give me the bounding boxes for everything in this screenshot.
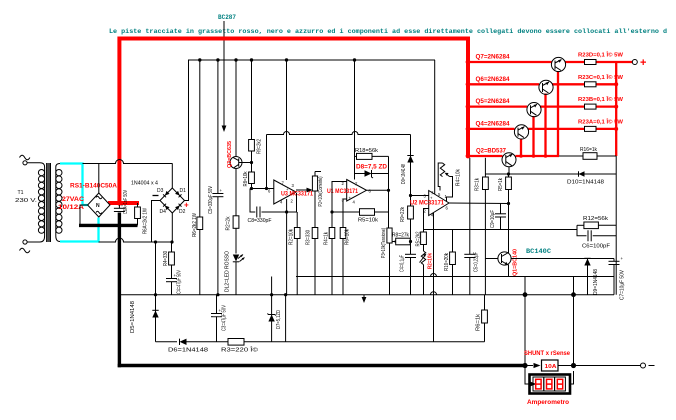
wire: Q3 emitter down / R2 / DL2 string	[235, 169, 237, 216]
resistor R6 1k	[482, 310, 488, 342]
wire: red emitter drop Q7	[557, 71, 559, 156]
wire: mid rail down to U3 input	[266, 135, 268, 189]
wire: red output bus right	[615, 62, 617, 156]
node: junction Q3 base	[250, 161, 253, 164]
wire: mid reference rail	[267, 132, 411, 135]
wire: red row Q2 emitters join	[516, 155, 560, 157]
svg-text:R2=10k: R2=10k	[289, 229, 295, 245]
node: junction R8 27k	[409, 240, 412, 243]
wire: red row Q6 to R23C	[552, 83, 585, 85]
node: junction D5 ground rail	[154, 293, 157, 296]
svg-text:R8=10k: R8=10k	[243, 171, 249, 186]
resistor R5 10k feedback	[360, 209, 389, 216]
svg-text:D3: D3	[157, 188, 164, 194]
diode D9 zener 1N4148	[407, 156, 413, 163]
node: junction link ground	[284, 293, 287, 296]
svg-text:Q6=2N6284: Q6=2N6284	[476, 76, 511, 83]
wire: R9 R8 drop	[251, 60, 253, 140]
node: junction Q2 emitter D10	[507, 172, 510, 175]
wire: bridge plus up to top rail	[185, 60, 189, 201]
wire: red row Q7 to R23D	[565, 61, 585, 63]
bridge rectifier D1-D4	[160, 188, 185, 213]
wire: R6 1k string	[484, 295, 486, 310]
resistor R9 22k	[408, 206, 414, 219]
svg-text:R2=10k: R2=10k	[428, 252, 434, 269]
svg-text:P2=10k(Corrente): P2=10k(Corrente)	[318, 176, 324, 206]
wire: red row R23C to bus	[596, 83, 616, 85]
svg-text:SHUNT x rSense: SHUNT x rSense	[524, 350, 571, 357]
wire: R12 C6 node stub	[576, 225, 578, 229]
node: red junction bus row Q4	[466, 126, 471, 131]
transistor Q3	[230, 157, 252, 169]
node: junction U1 output	[387, 189, 390, 192]
wire: red row Q4 to R23A	[528, 128, 585, 130]
wire: left AC rail	[83, 160, 173, 164]
node: junction D5 lower rail	[154, 240, 157, 243]
wire: red row R23D to + terminal	[596, 61, 632, 63]
wire: D5 string	[155, 242, 157, 342]
node: junction U3 input R8	[250, 187, 253, 190]
wire: red base row Q6	[468, 83, 539, 85]
node: junction U2 input	[409, 194, 412, 197]
wire: U2 pin4 down	[433, 213, 435, 342]
resistor R4 330	[169, 252, 175, 279]
diode D5	[152, 310, 158, 317]
capacitor C6 100pF	[577, 230, 616, 242]
capacitor C7 10uF	[609, 256, 624, 295]
resistor R5 1k	[506, 174, 512, 252]
wire: hop of U2 string over ground rail	[431, 292, 437, 295]
svg-text:R8=27k: R8=27k	[392, 233, 409, 239]
resistor R12 56k	[577, 222, 616, 229]
svg-text:R4=10k: R4=10k	[456, 169, 462, 186]
node: red junction bus row Q5	[466, 104, 471, 109]
wire: Q2 emitter down	[508, 167, 510, 174]
wire: U1 output node vertical	[388, 156, 390, 228]
svg-text:R3=330: R3=330	[306, 230, 312, 245]
node: red junction emitter Q6	[544, 154, 548, 158]
svg-text:D10=1N4148: D10=1N4148	[567, 180, 604, 186]
wire: Q1 collector line right	[511, 258, 614, 260]
wire: C5 string drop	[217, 60, 219, 194]
wire: D10 row	[485, 173, 616, 175]
resistor R16	[583, 153, 597, 160]
label: bridge minus	[153, 195, 159, 197]
wire: cyan secondary bottom	[60, 218, 99, 242]
wire: RS1 minus thin down	[80, 205, 88, 224]
node: red junction right bus R23C	[614, 82, 618, 86]
node: junction pin4 feedback	[285, 210, 288, 213]
wire: thick black ground rail	[118, 364, 525, 367]
transistor Q7	[551, 57, 565, 71]
svg-text:U2 MC33171: U2 MC33171	[410, 200, 445, 207]
svg-text:R10=20k: R10=20k	[444, 253, 450, 271]
terminal: - output	[641, 363, 655, 368]
wire: thick black main negative vertical	[118, 213, 121, 368]
resistor R23A	[585, 126, 597, 131]
svg-text:R4=1k: R4=1k	[324, 232, 330, 245]
node: red junction emitter Q5	[532, 154, 536, 158]
svg-text:R23A=0,1 Î© 5W: R23A=0,1 Î© 5W	[578, 117, 624, 125]
transistor Q2	[502, 153, 516, 167]
svg-text:R4=330: R4=330	[163, 251, 169, 266]
svg-text:BC287: BC287	[218, 14, 236, 22]
resistor R23D	[585, 60, 597, 65]
wire: RS1 top AC stub	[98, 164, 100, 194]
terminal: mains input top	[20, 155, 30, 165]
svg-text:R5=10k: R5=10k	[358, 218, 378, 224]
node: red junction emitter Q4	[519, 154, 523, 158]
wire: D9 branch vertical	[410, 135, 412, 242]
capacitor C8	[257, 193, 297, 218]
resistor R3 1k	[483, 158, 489, 295]
svg-text:R9=2k2: R9=2k2	[257, 139, 263, 154]
wire: Q3 collector drop	[235, 60, 237, 157]
resistor R10 20k	[450, 230, 456, 295]
transistor Q6	[539, 80, 553, 94]
trimmer R4 10k	[438, 163, 452, 202]
transformer T1 primary	[27, 163, 45, 242]
svg-text:Q2=BD537: Q2=BD537	[476, 147, 507, 154]
wire: C3 string	[216, 295, 218, 342]
svg-text:BC140C: BC140C	[526, 248, 551, 256]
wire: red output of bridge RS1	[108, 201, 139, 205]
svg-text:D4: D4	[160, 209, 167, 215]
trimmer R2 10k	[420, 251, 427, 295]
wire: arrow marker on ground rail	[362, 295, 367, 303]
node: junction lower rail bridge	[170, 240, 173, 243]
node: junction R5 feedback left	[330, 210, 333, 213]
transistor Q4	[514, 125, 528, 139]
potentiometer P3	[387, 228, 398, 295]
resistor R5 2k2	[421, 232, 427, 251]
capacitor C5 0.22uF	[464, 254, 475, 294]
svg-text:R9=22k: R9=22k	[400, 207, 406, 222]
resistor R6A	[135, 203, 141, 225]
svg-text:R23D=0,1 Î© 5W: R23D=0,1 Î© 5W	[578, 51, 624, 59]
wire: shunt right riser	[573, 277, 575, 366]
terminal: mains input bottom	[20, 240, 30, 253]
svg-text:N: N	[96, 203, 100, 209]
svg-text:Le piste tracciate in grassett: Le piste tracciate in grassetto rosso, n…	[109, 28, 667, 36]
op-amp U3	[268, 180, 296, 205]
wire: U1 inverting input to R4	[332, 182, 347, 213]
capacitor C9 10uF	[495, 204, 506, 230]
wire: C8 feedback loop	[250, 189, 255, 213]
resistor R23C	[585, 82, 597, 87]
svg-text:D8=7,5 ZD: D8=7,5 ZD	[356, 164, 388, 171]
svg-text:R16=1k: R16=1k	[580, 147, 597, 153]
svg-text:D1: D1	[180, 188, 187, 194]
wire: R4 330 string from lower rail	[171, 242, 173, 252]
wire: ground mid rail	[119, 294, 614, 296]
svg-text:Q3=BC635: Q3=BC635	[227, 141, 233, 168]
node: junction U3 input mid rail	[265, 187, 268, 190]
node: red junction bus row Q2	[466, 154, 471, 159]
wire: U1 supply drop	[354, 60, 356, 180]
wire: red row Q2	[468, 155, 503, 157]
wire: U1 noninverting input	[343, 198, 347, 200]
node: junction D7 ground rail	[270, 293, 273, 296]
wire: U1 output to node	[367, 189, 389, 191]
svg-text:R23B=0,1 Î© 5W: R23B=0,1 Î© 5W	[578, 95, 624, 103]
svg-text:Amperometro: Amperometro	[527, 399, 569, 406]
svg-text:R5=2k2: R5=2k2	[416, 231, 422, 246]
resistor R2 10k (below U3)	[294, 212, 300, 295]
svg-text:C6A=1nF 50V: C6A=1nF 50V	[123, 190, 129, 214]
wire: U3 supply drop	[286, 60, 288, 180]
wire: D7 string	[271, 277, 273, 342]
wire: cyan secondary top	[60, 164, 88, 206]
terminal: + output	[632, 60, 637, 65]
wire: U3 output arrow to P2	[296, 188, 313, 193]
wire: negative mid rail	[296, 276, 614, 278]
diode D10	[579, 171, 585, 177]
wire: hop of U2 string over neg rail	[431, 274, 437, 277]
wire: auxiliary top rail	[188, 59, 435, 61]
resistor R18	[355, 153, 389, 159]
resistor R8 10k	[249, 172, 255, 189]
svg-text:+: +	[184, 201, 189, 210]
wire: U3 inverting input line	[250, 188, 274, 190]
resistor R8 27k	[392, 238, 411, 245]
node: junction U1 supply	[353, 58, 356, 61]
wire: red base row Q5	[468, 105, 527, 107]
wire: black right bus below R16	[615, 156, 617, 295]
wire: U2 pin2 feedback down	[424, 209, 429, 233]
node: junction C5 C3 ground rail	[216, 293, 219, 296]
svg-text:C8=330pF: C8=330pF	[248, 218, 273, 224]
wire: AC rail down to diode bridge	[171, 164, 173, 189]
capacitor C4 0.1uF	[405, 242, 416, 295]
wire: U2 noninverting input	[411, 195, 429, 197]
svg-text:C5=330µF 50V: C5=330µF 50V	[208, 185, 214, 214]
capacitor C5 330uF	[212, 188, 223, 295]
note: BC287 annotation arrow	[222, 21, 227, 132]
wire: red base row Q4	[468, 128, 515, 130]
node: junction right riser mid rail	[571, 292, 576, 297]
wire: thick black minus lead	[79, 224, 138, 227]
wire: red emitter drop Q4	[520, 139, 522, 157]
wire: U3 pin4 down	[286, 199, 288, 295]
bridge rectifier RS1	[88, 193, 110, 217]
transistor Q1	[485, 252, 511, 277]
diode D8 zener	[355, 170, 389, 178]
node: red junction bus row Q7	[466, 60, 471, 65]
resistor R3 330	[312, 228, 318, 239]
svg-text:R5=1k: R5=1k	[498, 178, 504, 191]
node: red junction right bus R23B	[614, 105, 618, 109]
wire: U2 output line	[449, 202, 509, 205]
resistor R6 10k (U1)	[340, 199, 346, 295]
svg-text:10A: 10A	[545, 364, 557, 370]
svg-text:R3=1k: R3=1k	[475, 178, 481, 191]
diode D6	[180, 339, 229, 345]
op-amp U2	[424, 191, 450, 218]
svg-text:D2: D2	[179, 209, 186, 215]
svg-text:D9=1N4148: D9=1N4148	[401, 164, 407, 184]
op-amp U1	[342, 180, 372, 205]
svg-text:1N4004 x 4: 1N4004 x 4	[131, 181, 158, 187]
capacitor C3 47uF	[211, 308, 222, 317]
svg-text:R6=1k: R6=1k	[476, 313, 482, 331]
diode D9 1N4148 (right)	[584, 258, 590, 294]
resistor R4 1k	[329, 212, 335, 295]
wire: ground rail to minus terminal	[574, 365, 641, 367]
wire: red row R23A to bus	[596, 128, 616, 130]
svg-text:Q5=2N6284: Q5=2N6284	[476, 98, 511, 105]
LED DL2	[233, 255, 245, 295]
svg-text:C4=0,1µF: C4=0,1µF	[400, 255, 406, 272]
wire: main red positive bus (top)	[119, 39, 468, 204]
node: junction U3 supply	[285, 58, 288, 61]
svg-text:R6=2k2 1W: R6=2k2 1W	[192, 213, 198, 237]
svg-text:C7=10µF 50V: C7=10µF 50V	[620, 269, 626, 300]
wire: link ground to bottom rail	[285, 295, 287, 342]
wire: bottom negative rail	[156, 341, 178, 343]
wire: red row R23B to bus	[596, 105, 616, 107]
node: junction shunt left	[522, 363, 527, 368]
svg-text:C6=100pF: C6=100pF	[582, 244, 611, 250]
svg-text:230 V.: 230 V.	[15, 198, 37, 204]
node: red junction bus row Q6	[466, 82, 471, 87]
diode D7 zener	[267, 314, 275, 322]
node: junction shunt right	[571, 363, 576, 368]
svg-text:DL2=LED ROSSO: DL2=LED ROSSO	[225, 251, 231, 292]
wire: shunt left riser	[524, 277, 526, 366]
resistor R9 2k2	[249, 140, 255, 173]
svg-text:Q4=2N6284: Q4=2N6284	[476, 120, 511, 127]
wire: red emitter drop Q5	[532, 116, 534, 156]
svg-text:+: +	[640, 57, 646, 69]
wire: feedback rail right	[424, 229, 578, 231]
wire: red base row Q7	[468, 61, 552, 63]
svg-text:R2=2k: R2=2k	[226, 216, 232, 230]
svg-text:D7=5,1ZD: D7=5,1ZD	[276, 310, 282, 329]
node: junction C5 drop	[216, 58, 219, 61]
svg-text:P3=10k(Tensione): P3=10k(Tensione)	[381, 228, 387, 258]
transformer T1 core	[47, 163, 51, 242]
svg-text:Q1=BC140: Q1=BC140	[513, 249, 519, 276]
svg-text:C3=47µF 50V: C3=47µF 50V	[222, 304, 228, 331]
svg-text:R6=10k: R6=10k	[345, 229, 351, 245]
svg-text:C4=47µF 50V: C4=47µF 50V	[177, 269, 183, 294]
node: junction R9 drop	[250, 58, 253, 61]
wire: R5 feedback line	[332, 211, 360, 213]
wire: R18 D8 left leg	[354, 156, 356, 173]
potentiometer P2	[312, 172, 321, 295]
resistor R2 2k	[233, 216, 239, 254]
transistor Q5	[527, 103, 541, 117]
svg-text:R6A=2k2 1W: R6A=2k2 1W	[143, 208, 149, 234]
svg-text:C5=0,22µF: C5=0,22µF	[474, 252, 480, 272]
svg-text:R12=56k: R12=56k	[583, 216, 608, 222]
svg-text:T1: T1	[18, 190, 24, 196]
wire: red emitter drop Q6	[544, 94, 546, 157]
svg-text:R23C=0,1 Î© 5W: R23C=0,1 Î© 5W	[578, 73, 624, 81]
svg-text:R3=220 Î©: R3=220 Î©	[221, 347, 259, 354]
wire: bridge minus down	[171, 213, 173, 242]
wire: left lower rail	[99, 238, 173, 242]
capacitor C4 47uF	[166, 273, 177, 295]
node: red junction right bus R23A	[614, 127, 618, 131]
svg-text:Q7=2N6284: Q7=2N6284	[476, 54, 511, 61]
svg-text:C9=10µF: C9=10µF	[490, 210, 496, 228]
wire: R16 row black	[559, 155, 616, 157]
svg-text:D5=1N4148: D5=1N4148	[130, 301, 136, 333]
svg-text:RS1-B140C50A: RS1-B140C50A	[70, 183, 118, 190]
node: junction U2 out Q1	[507, 202, 510, 205]
wire: bridge AC2 to lower rail	[152, 201, 161, 243]
node: red junction at rectifier output	[117, 200, 122, 205]
resistor R3 220	[228, 339, 485, 346]
transformer T1 secondary	[56, 164, 62, 242]
resistor R6 2k2 1W	[197, 217, 203, 295]
svg-text:27VAC: 27VAC	[62, 196, 85, 203]
svg-text:D6=1N4148: D6=1N4148	[168, 348, 208, 354]
shunt resistor 10A	[525, 360, 574, 371]
wire: U2 supply drop	[434, 60, 436, 194]
wire: R6 string drop	[199, 60, 201, 217]
capacitor C6A	[114, 203, 125, 212]
wire: Q2 row drop to C5	[469, 158, 471, 255]
node: junction left riser mid rail	[523, 292, 528, 297]
svg-text:D9=1N4148: D9=1N4148	[593, 269, 599, 295]
ammeter display	[525, 366, 574, 394]
resistor R23B	[585, 104, 597, 109]
svg-text:R18=56k: R18=56k	[355, 148, 378, 154]
wire: red row Q5 to R23B	[540, 105, 585, 107]
node: junction R6 drop	[198, 58, 201, 61]
node: junction Q3 drop	[234, 58, 237, 61]
